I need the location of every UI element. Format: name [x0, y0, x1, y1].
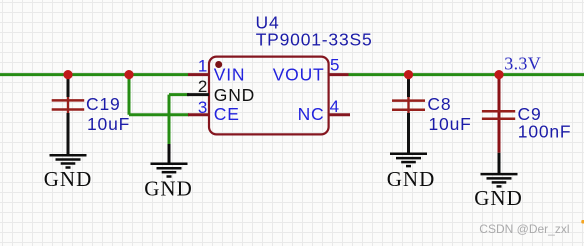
pin 1 VIN stub	[188, 73, 209, 76]
svg-text:C19: C19	[86, 94, 121, 114]
svg-text:10uF: 10uF	[429, 114, 472, 134]
part number TP9001-33S5	[256, 30, 373, 50]
net label 3.3V	[504, 53, 541, 73]
junction at C19	[63, 70, 72, 79]
watermark orange dot	[581, 220, 584, 224]
svg-text:VOUT: VOUT	[273, 65, 325, 85]
svg-text:CE: CE	[214, 104, 240, 124]
svg-text:4: 4	[330, 97, 339, 116]
watermark CSDN @Der_zxl	[479, 222, 569, 236]
pin number 1	[198, 56, 207, 75]
svg-text:GND: GND	[44, 167, 93, 191]
pin number 4	[330, 97, 339, 116]
value 100nF (C9)	[518, 122, 572, 142]
svg-text:3: 3	[198, 98, 207, 117]
junction at C9 / 3.3V	[494, 70, 503, 79]
ground (C9)	[474, 153, 523, 210]
pin 5 VOUT stub	[329, 73, 349, 76]
pin name CE	[214, 104, 240, 124]
ground (C8)	[387, 154, 436, 191]
svg-text:NC: NC	[298, 104, 325, 124]
svg-text:GND: GND	[214, 85, 255, 105]
svg-text:5: 5	[330, 55, 339, 74]
pin 3 CE stub	[188, 113, 209, 116]
designator U4	[256, 13, 280, 33]
svg-text:TP9001-33S5: TP9001-33S5	[256, 30, 373, 50]
value 10uF (C8)	[429, 114, 472, 134]
pin name NC	[298, 104, 325, 124]
label C8	[427, 94, 451, 114]
svg-text:1: 1	[198, 56, 207, 75]
svg-text:GND: GND	[144, 177, 193, 201]
svg-text:100nF: 100nF	[518, 122, 572, 142]
svg-text:3.3V: 3.3V	[504, 53, 541, 73]
junction at C8	[404, 70, 413, 79]
IC U4 TP9001-33S5 body	[209, 57, 329, 135]
ground (U4 GND pin)	[144, 144, 193, 201]
svg-text:GND: GND	[387, 167, 436, 191]
wire CE branch	[129, 75, 189, 115]
label C19	[86, 94, 121, 114]
svg-text:VIN: VIN	[214, 65, 246, 85]
pin 1 marker dot	[215, 61, 222, 68]
wire GND branch	[169, 95, 189, 145]
junction at CE branch	[124, 70, 133, 79]
pin name VOUT	[273, 65, 325, 85]
capacitor C9	[482, 75, 515, 153]
pin number 3	[198, 98, 207, 117]
pin 4 NC stub	[329, 113, 350, 116]
svg-text:2: 2	[198, 77, 207, 96]
pin name GND	[214, 85, 255, 105]
value 10uF (C19)	[87, 114, 130, 134]
wire main input rail	[0, 73, 188, 76]
label C9	[518, 104, 542, 124]
svg-text:CSDN @Der_zxl: CSDN @Der_zxl	[479, 222, 569, 236]
svg-text:10uF: 10uF	[87, 114, 130, 134]
capacitor C19	[52, 75, 84, 156]
ground (C19)	[44, 155, 93, 191]
pin number 2	[198, 77, 207, 96]
pin number 5	[330, 55, 339, 74]
svg-text:C8: C8	[427, 94, 451, 114]
svg-text:GND: GND	[474, 186, 523, 210]
pin name VIN	[214, 65, 246, 85]
capacitor C8	[392, 75, 425, 154]
wire output rail 3.3V	[349, 73, 584, 76]
pin 2 GND stub	[187, 93, 209, 96]
